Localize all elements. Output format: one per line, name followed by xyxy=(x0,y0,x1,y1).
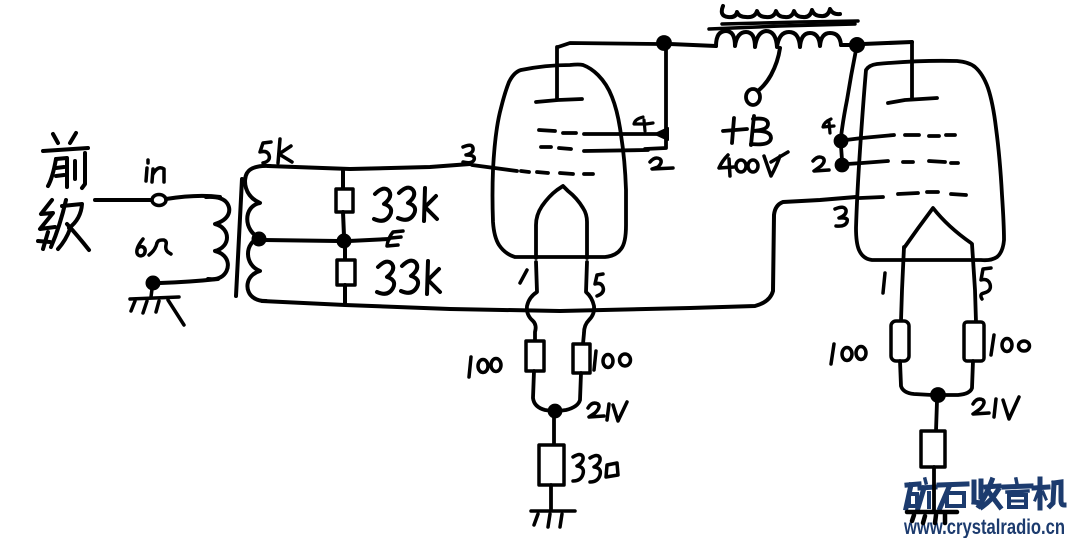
wire R2 to bottom rail xyxy=(343,285,347,304)
tube V2 cathode leg left xyxy=(901,247,904,321)
wire Rk2a to junction xyxy=(900,361,932,395)
input terminal circle xyxy=(152,195,166,206)
wire R330 to ground tube2 xyxy=(932,467,936,510)
tube V1 grid row3 dashes xyxy=(472,165,593,174)
wire Rk1b to junction xyxy=(558,373,581,411)
output transformer core lines xyxy=(709,24,855,29)
label 4 tube2 xyxy=(823,119,834,133)
output transformer secondary winding xyxy=(722,6,840,17)
tube V2 plate xyxy=(888,98,937,103)
tube V2 cathode leg right xyxy=(972,244,976,322)
divider junction dot xyxy=(339,236,350,247)
wire divider to E symbol xyxy=(349,239,389,241)
label 100 right tube1 xyxy=(594,351,631,370)
cathode junction dot tube2 xyxy=(932,389,944,401)
label 3 tube2 xyxy=(835,207,847,226)
wire junction to primary left xyxy=(670,44,716,46)
wire Rk2b to junction xyxy=(944,361,973,395)
label 33k upper xyxy=(374,188,437,221)
wire input left xyxy=(95,198,151,202)
resistor Rk2b 100 xyxy=(964,322,984,361)
wire Rk1a to junction xyxy=(533,371,552,411)
secondary center tap dot xyxy=(254,234,265,245)
label 2 tube2 xyxy=(813,157,829,171)
wire pin4 dot down to pin2 dot xyxy=(841,146,842,160)
tube V2 plate lead xyxy=(910,42,914,98)
tube V1 plate xyxy=(536,99,582,102)
tube V2 grid row3 dashes xyxy=(898,192,966,195)
wire primary right to junction xyxy=(841,43,851,47)
wire center tap to divider xyxy=(264,240,338,241)
label 21V tube2 xyxy=(973,397,1019,419)
B+ drop wire to pins 4 and 2 xyxy=(841,50,856,137)
wire junction to R2 xyxy=(343,246,347,260)
tube V1 envelope xyxy=(493,65,627,258)
WATERMARK xyxy=(903,479,1065,538)
label 100 right tube2 xyxy=(991,335,1030,355)
label +B xyxy=(723,116,771,145)
wire input to transformer primary xyxy=(166,196,220,199)
tube V2 envelope xyxy=(856,61,1004,260)
wire V1 plate to B+ junction xyxy=(558,43,659,47)
label 4 tube1 xyxy=(634,117,653,131)
tube V1 pin2 wire xyxy=(584,150,648,151)
resistor R330 tube1 xyxy=(539,445,564,485)
tube V1 cathode dome xyxy=(536,186,587,258)
wire top rail to R1 xyxy=(341,171,345,189)
pin4 arrowhead xyxy=(655,128,668,140)
wire R330 to ground xyxy=(549,485,553,509)
tube V2 grid row2 dashes xyxy=(903,161,958,163)
tube V2 pin3 wire xyxy=(860,197,883,198)
E symbol (grid bias tap) xyxy=(387,231,403,246)
resistor Rk1a 100 xyxy=(526,341,544,371)
wire secondary top lead xyxy=(268,164,470,169)
watermark logo char 石 xyxy=(939,484,967,508)
label 33k lower xyxy=(377,261,440,294)
label in xyxy=(146,160,164,182)
watermark logo char 收 xyxy=(974,480,1000,507)
svg-text:www.crystalradio.cn: www.crystalradio.cn xyxy=(903,516,1065,538)
label 2 tube1 xyxy=(650,158,673,169)
tube V1 plate lead xyxy=(555,47,559,99)
wire R1 to junction xyxy=(343,212,344,236)
wire junction to V2 plate lead xyxy=(863,42,912,44)
tube V2 grid row1 dashes xyxy=(905,135,955,136)
label 330 tube1 xyxy=(573,455,618,483)
label 21V tube1 xyxy=(588,402,627,421)
tube V1 grid row2 dashes xyxy=(541,147,571,149)
resistor R2 33k xyxy=(337,260,355,285)
junction dot transformer right xyxy=(851,39,863,51)
tube V2 cathode tent xyxy=(904,208,971,248)
wire junction to R330 tube2 xyxy=(936,401,937,431)
tube V1 cathode legs with base flare xyxy=(527,262,537,341)
label 5 tube1 xyxy=(595,274,603,296)
input ground terminal dot xyxy=(148,278,159,289)
tube V1 grid row1 dashes xyxy=(539,130,576,133)
label 1 tube2 xyxy=(883,273,885,293)
label 5 tube2 xyxy=(981,268,991,299)
label 5k xyxy=(260,139,292,163)
tube V1 pin4 wire xyxy=(584,132,656,136)
wire secondary bottom lead / long bottom rail xyxy=(262,197,856,311)
input ground symbol xyxy=(130,289,184,325)
B+ terminal circle xyxy=(746,89,760,105)
label 前 (front) xyxy=(43,133,88,188)
cathode junction dot tube1 xyxy=(550,406,561,417)
input transformer secondary coil xyxy=(245,166,270,301)
label 100 left tube2 xyxy=(831,344,866,364)
input transformer core xyxy=(236,179,242,296)
label 级 (stage) xyxy=(38,200,89,250)
wire junction to R330 xyxy=(552,414,556,445)
junction dot V1 top xyxy=(658,37,670,49)
pin2 junction dot tube2 xyxy=(837,160,848,171)
input transformer primary coil xyxy=(206,197,229,279)
watermark logo char 矿 xyxy=(906,479,935,508)
wire primary bottom to ground terminal xyxy=(160,279,218,283)
watermark logo char 音 xyxy=(1004,479,1031,507)
resistor R1 33k xyxy=(336,189,353,212)
ground symbol tube1 xyxy=(531,511,575,527)
label 1 tube1 xyxy=(520,270,527,283)
watermark logo char 机 xyxy=(1034,479,1064,508)
resistor R330 tube2 xyxy=(921,431,945,467)
resistor Rk2a 100 xyxy=(891,321,909,361)
ground symbol tube2 xyxy=(907,512,957,523)
output transformer primary winding xyxy=(716,31,841,47)
label 3 tube1 grid xyxy=(463,145,474,162)
tube V2 pin4 wire xyxy=(846,135,894,140)
tube V2 pin2 wire xyxy=(847,161,888,164)
pin4 junction dot tube2 xyxy=(836,136,847,147)
label 100 left tube1 xyxy=(469,357,501,377)
resistor Rk1b 100 xyxy=(573,344,590,373)
wire junction down to pins 4 and 2 xyxy=(645,49,666,149)
label 400V xyxy=(719,152,788,176)
B+ center tap wire xyxy=(759,48,780,90)
label 6R xyxy=(137,239,171,256)
